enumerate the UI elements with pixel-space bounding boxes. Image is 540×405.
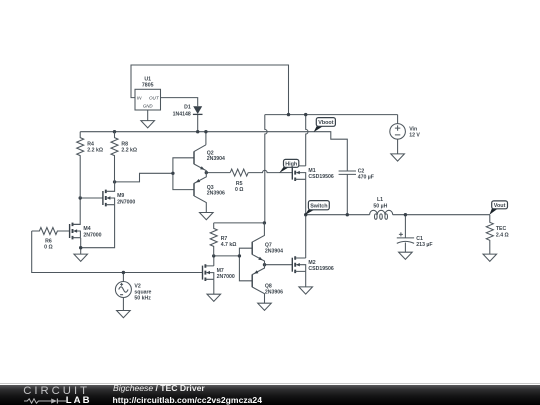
svg-text:TEC: TEC: [496, 226, 507, 232]
svg-text:2.2 kΩ: 2.2 kΩ: [87, 148, 103, 154]
svg-text:Switch: Switch: [310, 203, 327, 209]
svg-text:R6: R6: [45, 238, 52, 244]
svg-text:High: High: [285, 162, 297, 168]
ground under Vin: [391, 154, 405, 161]
svg-text:Q8: Q8: [265, 283, 272, 289]
svg-text:R5: R5: [236, 181, 243, 187]
junction Q2 Q3 bases: [171, 172, 174, 175]
ground under M2: [299, 287, 313, 294]
wire emitters Q7 Q8 to M2 gate: [265, 264, 293, 266]
wire D1 anode from U1 OUT: [161, 98, 198, 107]
wire R7 bottom M7 drain junction to bases bracket Q7 Q8: [214, 255, 240, 257]
transistor Q2: [194, 145, 206, 173]
svg-text:D1: D1: [184, 105, 191, 111]
ground under Q8: [258, 303, 272, 310]
junction Q7 Q8 emitters: [263, 263, 266, 266]
wire D1 cathode to rail: [197, 114, 199, 131]
wire M1 source to Switch node: [305, 179, 307, 214]
wire R7 top to vertical x=264.8: [214, 222, 265, 224]
svg-text:square: square: [134, 290, 151, 296]
junction R7 M7 drain: [212, 254, 215, 257]
diode D1: [193, 106, 203, 114]
wire 7805 output rail y=131.7 to C2 top: [80, 132, 347, 171]
svg-text:0 Ω: 0 Ω: [44, 244, 53, 250]
svg-text:R4: R4: [87, 142, 94, 148]
CircuitLab logo text CIRCUIT: [23, 385, 90, 397]
junction V2 top: [122, 271, 125, 274]
resistor R4: [77, 132, 84, 198]
capacitor C1 plus sign: [399, 232, 403, 236]
CircuitLab logo text LAB: [66, 395, 92, 405]
node Vout: [489, 201, 507, 215]
svg-text:GND: GND: [143, 104, 154, 109]
junction Q2 Q3 emitters: [205, 171, 208, 174]
svg-text:4.7 kΩ: 4.7 kΩ: [221, 242, 237, 248]
transistor Q3: [194, 173, 206, 213]
footer bar: [0, 385, 540, 405]
svg-text:C2: C2: [358, 169, 365, 175]
schematic title: [113, 383, 205, 393]
wire M7 source to ground: [213, 279, 215, 294]
svg-text:1N4148: 1N4148: [173, 112, 191, 118]
wire M2 source to ground: [305, 271, 307, 287]
svg-text:U1: U1: [144, 76, 151, 82]
svg-text:2N7000: 2N7000: [83, 232, 101, 238]
svg-text:Q7: Q7: [265, 242, 272, 248]
transistor M2: [292, 256, 305, 273]
junction M1 drain rail: [304, 113, 307, 116]
svg-text:V2: V2: [134, 283, 140, 289]
voltage source Vin: [390, 124, 406, 140]
wire Vin bottom to ground: [397, 139, 399, 154]
svg-text:2N7000: 2N7000: [117, 199, 135, 205]
junction Switch node: [304, 213, 307, 216]
junction Q2 collector: [204, 130, 207, 133]
transistor Q8: [252, 265, 264, 304]
resistor R5: [230, 169, 248, 176]
inductor L1: [370, 210, 393, 214]
svg-text:M2: M2: [308, 260, 315, 266]
transistor Q7: [252, 223, 264, 265]
svg-text:2N3906: 2N3906: [207, 191, 225, 197]
regulator U1 7805 box: [135, 89, 161, 110]
svg-text:IN: IN: [137, 96, 142, 101]
wire M1 drain vertical with hop: [306, 115, 308, 166]
capacitor C2: [339, 171, 356, 174]
node Switch: [305, 201, 329, 215]
wire M9 gate: [80, 197, 103, 199]
ground under M4 M9: [74, 254, 88, 261]
wire C2 bottom to Switch rail: [346, 174, 348, 214]
svg-text:CSD19506: CSD19506: [308, 266, 333, 272]
svg-text:L1: L1: [377, 197, 383, 203]
node High: [279, 159, 299, 173]
junction R8 top: [113, 130, 116, 133]
resistor TEC: [486, 215, 493, 254]
svg-text:213 µF: 213 µF: [416, 242, 432, 248]
svg-text:2N3904: 2N3904: [265, 249, 283, 255]
svg-text:M9: M9: [117, 193, 124, 199]
svg-text:R7: R7: [221, 236, 228, 242]
svg-text:M7: M7: [217, 268, 224, 274]
svg-text:Vboot: Vboot: [318, 120, 333, 126]
wire C1 top lead: [404, 215, 406, 238]
junction R7 top Q7 collector: [263, 221, 266, 224]
svg-text:2N7000: 2N7000: [217, 274, 235, 280]
wire R5 to M1 gate with hop over x=264.8: [248, 170, 292, 172]
capacitor C1 plates: [397, 238, 414, 244]
svg-text:Vin: Vin: [409, 126, 417, 132]
resistor R7: [210, 223, 217, 256]
svg-text:C1: C1: [416, 236, 423, 242]
voltage source V2: [115, 282, 131, 298]
svg-text:50 kHz: 50 kHz: [134, 296, 151, 302]
resistor R8: [111, 132, 118, 182]
wire U1 GND to ground: [147, 110, 149, 121]
wire Switch rail to L1: [306, 214, 370, 216]
wire emitters Q2 Q3 to R5: [206, 172, 230, 174]
wire M7 drain vertical: [213, 256, 215, 266]
svg-text:Vout: Vout: [494, 203, 506, 209]
transistor M1: [292, 164, 305, 181]
svg-text:M1: M1: [308, 168, 315, 174]
footer separator: [0, 383, 540, 384]
ground under M7: [207, 294, 221, 301]
wire bases bracket Q7 Q8: [239, 248, 252, 281]
wire vertical x=264.8 with hop over 7805 rail: [265, 115, 267, 223]
svg-text:R8: R8: [121, 142, 128, 148]
wire R4 column to M4 drain: [73, 198, 80, 225]
ground under TEC: [483, 254, 497, 261]
ground under V2: [117, 311, 131, 318]
transistor M7: [203, 264, 214, 281]
wire bases bracket Q2 Q3: [173, 158, 194, 190]
svg-text:2N3906: 2N3906: [265, 290, 283, 296]
junction C1 top: [404, 213, 407, 216]
wire Vin rail y=114.6: [265, 114, 398, 116]
wire U1 IN to top rail down to Vin rail: [131, 65, 289, 115]
wire C1 bottom to ground: [404, 243, 406, 253]
wire M4 source to ground node: [80, 238, 82, 254]
svg-text:50 µH: 50 µH: [373, 203, 387, 209]
junction Q7 Q8 bases: [238, 254, 241, 257]
wire Q2 collector to rail: [205, 132, 207, 145]
wire Vin top lead: [397, 115, 399, 124]
junction C2 bottom: [346, 213, 349, 216]
junction D1 cathode: [196, 130, 199, 133]
schematic url: [113, 395, 263, 405]
node Vboot: [314, 118, 336, 133]
ground under C1: [399, 252, 413, 259]
junction M4 M9 sources: [79, 246, 82, 249]
wire M9 drain node to Q2 Q3 bases step: [115, 173, 173, 182]
junction top rail drop: [287, 113, 290, 116]
ground under Q3: [200, 213, 214, 220]
svg-text:470 µF: 470 µF: [358, 175, 374, 181]
transistor M9: [103, 182, 115, 207]
svg-text:2.2 kΩ: 2.2 kΩ: [121, 148, 137, 154]
svg-text:2.4 Ω: 2.4 Ω: [496, 232, 509, 238]
svg-text:2N3904: 2N3904: [207, 156, 225, 162]
junction R4 M9 gate: [79, 196, 82, 199]
resistor R6: [32, 228, 70, 235]
wire R6 down and across to V2 and M7 gate: [32, 231, 203, 273]
wire L1 to Vout: [393, 214, 490, 216]
svg-text:OUT: OUT: [149, 96, 160, 101]
svg-text:M4: M4: [83, 226, 90, 232]
svg-text:7805: 7805: [142, 82, 154, 88]
wire V2 bottom lead to ground: [122, 298, 124, 311]
ground under U1: [141, 121, 155, 128]
wire V2 top lead: [122, 273, 124, 282]
svg-text:12 V: 12 V: [409, 132, 420, 138]
svg-text:CSD19506: CSD19506: [308, 174, 333, 180]
wire M9 source down to M4 source node: [81, 205, 115, 248]
logo squiggle resistor+diode: [24, 398, 67, 404]
svg-text:0 Ω: 0 Ω: [235, 187, 244, 193]
junction R8 M9 drain: [113, 180, 116, 183]
transistor M4: [70, 223, 81, 240]
wire M2 drain: [305, 215, 307, 258]
